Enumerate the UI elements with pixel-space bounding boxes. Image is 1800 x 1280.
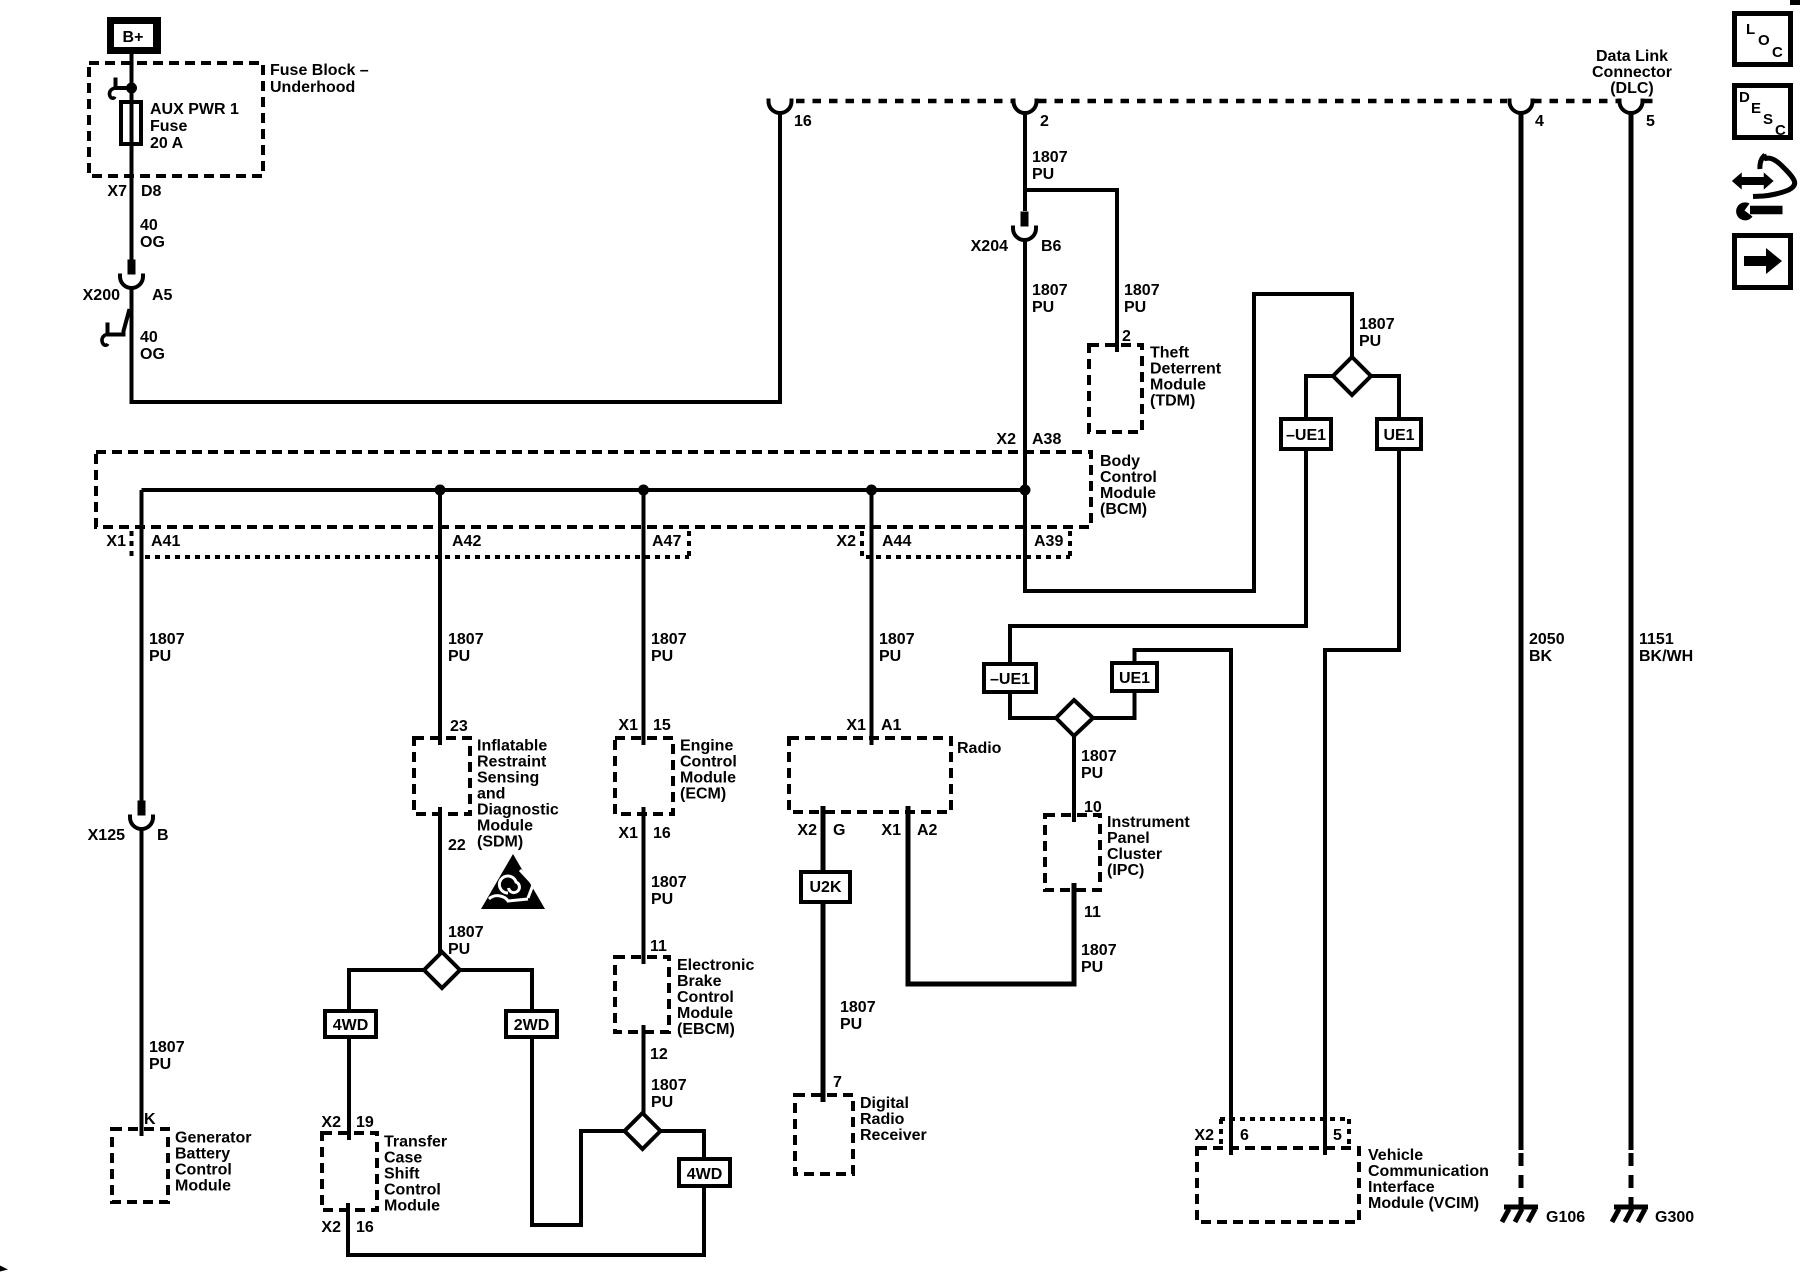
wire BCM A41 to X125 [140, 490, 144, 803]
wire lower UE1 to IPC diamond [1093, 691, 1135, 718]
svg-text:B: B [157, 827, 169, 844]
junction A44 [866, 485, 877, 496]
svg-text:1807: 1807 [651, 631, 687, 648]
svg-text:X2: X2 [836, 533, 856, 550]
svg-text:–UE1: –UE1 [1286, 427, 1326, 444]
generator battery control module [112, 1129, 168, 1202]
wire lower -UE1 to IPC diamond [1010, 692, 1056, 718]
engine control module ECM [615, 738, 673, 814]
ground G106 [1502, 1207, 1538, 1222]
wire diamond to lower 4WD [661, 1131, 705, 1159]
svg-text:PU: PU [651, 891, 673, 908]
BCM internal bus wire [142, 488, 1026, 492]
svg-text:Engine: Engine [680, 738, 733, 755]
DLC pin 16 [769, 99, 792, 114]
svg-text:1807: 1807 [840, 999, 876, 1016]
svg-text:Sensing: Sensing [477, 770, 539, 787]
svg-text:A2: A2 [917, 822, 938, 839]
svg-text:Radio: Radio [957, 740, 1002, 757]
svg-text:15: 15 [653, 717, 671, 734]
svg-text:Receiver: Receiver [860, 1127, 927, 1144]
connector X204 B6 [1013, 212, 1036, 241]
splice diamond S1 [424, 952, 460, 988]
svg-text:16: 16 [794, 113, 812, 130]
svg-text:X2: X2 [797, 822, 817, 839]
svg-text:6: 6 [1240, 1127, 1249, 1144]
wire diamond to 4WD [349, 970, 424, 1011]
svg-text:(EBCM): (EBCM) [677, 1021, 735, 1038]
digital radio receiver module [795, 1095, 853, 1174]
junction at fuse top [126, 83, 137, 94]
wire U2K to digital radio receiver [821, 902, 826, 1102]
svg-text:12: 12 [650, 1046, 668, 1063]
clip hook below X200 [107, 309, 130, 335]
svg-text:2WD: 2WD [514, 1017, 550, 1034]
svg-text:X2: X2 [321, 1219, 341, 1236]
svg-text:Electronic: Electronic [677, 957, 754, 974]
svg-text:Vehicle: Vehicle [1368, 1147, 1423, 1164]
svg-text:C: C [1772, 44, 1783, 61]
svg-text:Diagnostic: Diagnostic [477, 802, 559, 819]
wire diamond to 2WD [460, 970, 532, 1011]
inflatable restraint SDM module [414, 738, 470, 814]
svg-text:22: 22 [448, 837, 466, 854]
DLC dotted strip [796, 99, 1012, 104]
svg-text:X1: X1 [846, 717, 866, 734]
lower 4WD box [679, 1159, 730, 1186]
svg-text:16: 16 [356, 1219, 374, 1236]
svg-text:OG: OG [140, 234, 165, 251]
wire BCM A39 to upper splice [1025, 294, 1352, 591]
svg-text:1151: 1151 [1639, 631, 1674, 648]
wire 4WD to transfer case module [347, 1037, 351, 1140]
svg-text:(BCM): (BCM) [1100, 501, 1147, 518]
svg-text:1807: 1807 [879, 631, 915, 648]
wire radio G to U2K [821, 806, 826, 872]
svg-text:11: 11 [650, 938, 667, 955]
svg-text:Deterrent: Deterrent [1150, 361, 1222, 378]
svg-text:Module: Module [384, 1198, 440, 1215]
ground G300 [1612, 1207, 1648, 1222]
svg-text:Instrument: Instrument [1107, 814, 1190, 831]
svg-text:PU: PU [840, 1016, 862, 1033]
svg-text:Module (VCIM): Module (VCIM) [1368, 1195, 1479, 1212]
SRS warning triangle [481, 854, 545, 909]
svg-text:PU: PU [1081, 765, 1103, 782]
svg-text:OG: OG [140, 346, 165, 363]
splice diamond S3 [1333, 357, 1371, 395]
svg-text:2050: 2050 [1529, 631, 1565, 648]
svg-text:O: O [1758, 32, 1770, 49]
lower UE1 fuse box [1112, 663, 1157, 691]
svg-text:Control: Control [1100, 469, 1157, 486]
lower -UE1 fuse box [984, 664, 1036, 692]
radio module box [789, 738, 951, 812]
svg-text:1807: 1807 [1032, 149, 1068, 166]
svg-text:1807: 1807 [448, 631, 484, 648]
junction A42 [435, 485, 446, 496]
junction A47 [638, 485, 649, 496]
branch wire to TDM [1025, 190, 1117, 352]
svg-text:X7: X7 [107, 183, 127, 200]
wire upper -UE1 to lower -UE1 [1010, 449, 1306, 664]
svg-text:Shift: Shift [384, 1166, 420, 1183]
fuse AUX PWR 1 [121, 102, 141, 144]
svg-text:X1: X1 [618, 717, 638, 734]
svg-text:PU: PU [1032, 166, 1054, 183]
svg-text:Radio: Radio [860, 1111, 905, 1128]
electronic brake control module EBCM [615, 957, 669, 1032]
wire transfer case to lower 4WD loop [348, 1187, 704, 1255]
svg-text:1807: 1807 [1359, 316, 1395, 333]
wire BCM A42 to SDM [438, 490, 442, 745]
svg-text:(ECM): (ECM) [680, 786, 726, 803]
DLC pin 2 [1014, 99, 1037, 114]
wire X200 to DLC pin 16 [132, 112, 781, 402]
junction A38/A39 [1020, 485, 1031, 496]
clip hook at fuse feed [116, 86, 131, 90]
svg-text:Interface: Interface [1368, 1179, 1435, 1196]
svg-text:Control: Control [680, 754, 737, 771]
svg-text:2: 2 [1122, 328, 1131, 345]
svg-text:Module: Module [1100, 485, 1156, 502]
svg-text:UE1: UE1 [1383, 427, 1414, 444]
instrument panel cluster IPC [1045, 815, 1100, 890]
sidebar arrow icon [1735, 236, 1791, 288]
vehicle communication interface module VCIM [1197, 1148, 1359, 1222]
wire diamond to upper -UE1 [1306, 376, 1333, 419]
svg-text:A42: A42 [452, 533, 481, 550]
svg-text:K: K [144, 1111, 156, 1128]
svg-text:11: 11 [1084, 904, 1101, 921]
svg-text:BK: BK [1529, 648, 1553, 665]
battery feed B+ [107, 17, 161, 54]
svg-text:D: D [1739, 89, 1750, 106]
svg-text:(DLC): (DLC) [1610, 80, 1654, 97]
svg-text:BK/WH: BK/WH [1639, 648, 1693, 665]
wire 2WD to EBCM diamond [532, 1037, 624, 1225]
wire diamond to IPC pin 10 [1072, 736, 1076, 822]
wire diamond to upper UE1 [1371, 376, 1399, 419]
svg-text:Battery: Battery [175, 1146, 230, 1163]
svg-text:A44: A44 [882, 533, 911, 550]
body control module BCM box [96, 452, 1091, 527]
svg-text:Brake: Brake [677, 973, 722, 990]
svg-text:A38: A38 [1032, 431, 1061, 448]
upper -UE1 fuse box [1281, 419, 1331, 449]
svg-text:E: E [1751, 100, 1761, 117]
svg-text:Case: Case [384, 1150, 422, 1167]
svg-text:16: 16 [653, 825, 671, 842]
svg-text:PU: PU [149, 648, 171, 665]
svg-text:X2: X2 [996, 431, 1016, 448]
svg-text:4: 4 [1535, 113, 1544, 130]
connector X200 A5 [120, 260, 143, 289]
svg-text:G106: G106 [1546, 1209, 1585, 1226]
svg-text:PU: PU [448, 648, 470, 665]
wire EBCM to splice diamond [642, 1025, 646, 1115]
splice diamond S4 [1056, 700, 1093, 736]
svg-text:(IPC): (IPC) [1107, 862, 1144, 879]
svg-text:1807: 1807 [1081, 748, 1117, 765]
svg-text:C: C [1775, 122, 1786, 139]
svg-text:1807: 1807 [651, 1077, 687, 1094]
svg-text:X1: X1 [618, 825, 638, 842]
svg-text:PU: PU [651, 648, 673, 665]
svg-text:Module: Module [677, 1005, 733, 1022]
svg-text:PU: PU [1081, 959, 1103, 976]
U2K box [801, 872, 850, 902]
wire X125 to generator battery control module [140, 828, 144, 1136]
svg-text:G300: G300 [1655, 1209, 1694, 1226]
wire DLC 4 to G106 [1519, 112, 1524, 1150]
theft deterrent module TDM [1089, 345, 1142, 432]
svg-text:A1: A1 [881, 717, 902, 734]
svg-text:Control: Control [677, 989, 734, 1006]
svg-text:5: 5 [1646, 113, 1655, 130]
svg-text:(TDM): (TDM) [1150, 393, 1195, 410]
svg-text:Communication: Communication [1368, 1163, 1489, 1180]
fuse block underhood box [89, 63, 263, 176]
4WD box [325, 1011, 376, 1037]
svg-text:23: 23 [450, 718, 468, 735]
svg-text:X2: X2 [1194, 1127, 1214, 1144]
sidebar LOC icon [1735, 14, 1791, 65]
svg-text:2: 2 [1040, 113, 1049, 130]
svg-text:4WD: 4WD [333, 1017, 369, 1034]
svg-text:Panel: Panel [1107, 830, 1150, 847]
wire SDM to splice diamond [438, 807, 442, 954]
svg-text:X1: X1 [106, 533, 126, 550]
wire B+ to fuse [130, 54, 134, 264]
2WD box [506, 1011, 557, 1037]
svg-text:Transfer: Transfer [384, 1134, 447, 1151]
svg-text:G: G [833, 822, 845, 839]
scan artifact bottom left [0, 1266, 8, 1272]
svg-text:Inflatable: Inflatable [477, 738, 547, 755]
wire X204 to BCM A38 [1023, 239, 1027, 557]
svg-text:Control: Control [384, 1182, 441, 1199]
transfer case shift control module [322, 1133, 377, 1210]
svg-text:(SDM): (SDM) [477, 834, 523, 851]
svg-text:U2K: U2K [809, 879, 841, 896]
BCM X2 connector strip [860, 531, 864, 557]
sidebar swap-wrench icon [1733, 154, 1795, 221]
svg-text:X200: X200 [83, 287, 120, 304]
svg-text:5: 5 [1333, 1127, 1342, 1144]
svg-text:AUX PWR 1: AUX PWR 1 [150, 101, 239, 118]
svg-text:1807: 1807 [149, 1039, 185, 1056]
svg-text:PU: PU [149, 1056, 171, 1073]
wire BCM A47 to ECM [642, 490, 646, 745]
svg-text:Generator: Generator [175, 1130, 251, 1147]
svg-text:1807: 1807 [651, 874, 687, 891]
scan artifact top right [1790, 0, 1800, 5]
svg-text:and: and [477, 786, 505, 803]
svg-text:A39: A39 [1034, 533, 1063, 550]
svg-text:UE1: UE1 [1119, 670, 1150, 687]
svg-text:B+: B+ [123, 29, 144, 46]
svg-text:Underhood: Underhood [270, 79, 355, 96]
sidebar DESC icon [1735, 86, 1791, 140]
svg-text:Data Link: Data Link [1596, 48, 1668, 65]
svg-text:X125: X125 [88, 827, 125, 844]
DLC pin 5 [1620, 99, 1643, 114]
wire DLC 5 to G300 [1629, 112, 1634, 1150]
svg-text:Fuse Block –: Fuse Block – [270, 62, 369, 79]
svg-text:Digital: Digital [860, 1095, 909, 1112]
svg-text:D8: D8 [141, 183, 162, 200]
svg-text:Module: Module [175, 1178, 231, 1195]
wire BCM A44 to radio [870, 490, 874, 745]
svg-text:1807: 1807 [1124, 282, 1160, 299]
svg-text:1807: 1807 [1032, 282, 1068, 299]
svg-text:Module: Module [680, 770, 736, 787]
svg-text:PU: PU [448, 941, 470, 958]
svg-text:7: 7 [833, 1074, 842, 1091]
svg-text:Module: Module [477, 818, 533, 835]
VCIM X2 connector strip [1220, 1117, 1349, 1121]
wire DLC2 down with TDM branch [1023, 112, 1027, 211]
wire ECM to EBCM [642, 807, 646, 964]
svg-text:L: L [1746, 21, 1755, 38]
svg-text:PU: PU [1032, 299, 1054, 316]
wire upper UE1 to VCIM pin 5 [1325, 449, 1399, 1155]
svg-text:1807: 1807 [1081, 942, 1117, 959]
svg-text:Cluster: Cluster [1107, 846, 1162, 863]
svg-text:PU: PU [1359, 333, 1381, 350]
svg-text:–UE1: –UE1 [990, 671, 1030, 688]
svg-text:Fuse: Fuse [150, 118, 187, 135]
DLC pin 4 [1510, 99, 1533, 114]
svg-text:A5: A5 [152, 287, 173, 304]
svg-text:1807: 1807 [448, 924, 484, 941]
svg-text:Restraint: Restraint [477, 754, 547, 771]
svg-text:B6: B6 [1041, 238, 1062, 255]
BCM X1 connector strip [130, 531, 134, 557]
svg-text:40: 40 [140, 329, 158, 346]
svg-text:X1: X1 [881, 822, 901, 839]
svg-text:Body: Body [1100, 453, 1140, 470]
svg-text:S: S [1763, 111, 1773, 128]
svg-text:PU: PU [651, 1094, 673, 1111]
svg-text:19: 19 [356, 1114, 374, 1131]
svg-text:4WD: 4WD [687, 1166, 723, 1183]
upper UE1 fuse box [1377, 419, 1421, 449]
connector X125 B [130, 801, 153, 830]
svg-text:Module: Module [1150, 377, 1206, 394]
wire lower UE1 to VCIM pin 6 [1135, 650, 1232, 1155]
splice diamond S2 [625, 1113, 661, 1149]
svg-text:X204: X204 [971, 238, 1008, 255]
svg-text:PU: PU [1124, 299, 1146, 316]
svg-text:Theft: Theft [1150, 345, 1190, 362]
svg-text:Connector: Connector [1592, 64, 1672, 81]
svg-text:40: 40 [140, 217, 158, 234]
svg-text:A41: A41 [151, 533, 180, 550]
wire radio A2 to IPC 11 [908, 806, 1074, 984]
svg-text:20 A: 20 A [150, 135, 184, 152]
svg-text:Control: Control [175, 1162, 232, 1179]
svg-text:X2: X2 [321, 1114, 341, 1131]
svg-text:1807: 1807 [149, 631, 185, 648]
svg-text:PU: PU [879, 648, 901, 665]
svg-text:A47: A47 [652, 533, 681, 550]
